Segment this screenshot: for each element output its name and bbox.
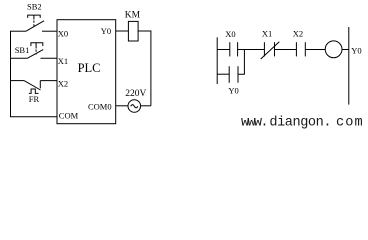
thermal relay FR (NC contact) (24, 81, 41, 94)
wire: X0 to X1 with branch node (238, 49, 265, 51)
wire: X2 to coil Y0 (305, 49, 325, 51)
wire: bus to SB2 left terminal (10, 30, 26, 32)
svg-text:220V: 220V (125, 89, 146, 99)
wire: X1 to X2 (275, 49, 297, 51)
svg-text:Y0: Y0 (101, 26, 111, 36)
contact X2 (NO) (296, 42, 305, 56)
wire: Y0 contact up to main rung (238, 50, 244, 75)
svg-text:SB2: SB2 (27, 2, 42, 12)
wire: FR right terminal to PLC X2 (40, 80, 57, 82)
wire: bus to SB1 left terminal (10, 57, 28, 59)
svg-text:Y0: Y0 (351, 46, 361, 56)
svg-text:FR: FR (29, 94, 40, 104)
svg-text:X2: X2 (293, 28, 303, 38)
wire: left input bus (10, 31, 12, 117)
svg-text:www.diangon.com: www.diangon.com (241, 115, 364, 130)
PLC U1 box (57, 20, 116, 124)
output coil Y0 (325, 41, 342, 58)
wire: SB1 right terminal to PLC X1 (41, 57, 58, 59)
wire: bus to FR left terminal (10, 80, 24, 82)
wire: AC source to right drop (141, 105, 151, 107)
svg-text:X1: X1 (58, 56, 68, 66)
svg-text:SB1: SB1 (15, 45, 30, 55)
wire: PLC Y0 to KM coil (116, 30, 129, 32)
ladder right rail (348, 27, 350, 105)
pushbutton SB2 (NO contact) (26, 15, 44, 31)
wire: rail to contact X0 (217, 49, 229, 51)
contact X0 (NO) (230, 42, 238, 56)
wire: rail to contact Y0 (seal-in branch) (217, 73, 229, 75)
svg-text:X0: X0 (58, 28, 68, 38)
svg-text:COM0: COM0 (88, 102, 112, 112)
wire: bus to PLC COM (10, 116, 57, 118)
svg-text:Y0: Y0 (228, 85, 238, 95)
wire: SB2 right terminal to PLC X0 (42, 30, 57, 32)
svg-text:X0: X0 (225, 29, 235, 39)
AC source 220V (128, 100, 141, 113)
svg-text:PLC: PLC (78, 61, 101, 75)
contact X1 (NC) (261, 42, 280, 59)
contactor coil KM (128, 21, 138, 41)
svg-text:X1: X1 (262, 28, 272, 38)
wire: KM coil to right drop (138, 31, 151, 106)
wire: PLC COM0 to AC source (116, 105, 128, 107)
svg-text:X2: X2 (58, 79, 68, 89)
svg-text:COM: COM (59, 110, 79, 120)
svg-text:KM: KM (125, 11, 141, 21)
contact Y0 (NO seal-in) (229, 66, 238, 83)
wire: coil to right rail (342, 49, 349, 51)
pushbutton SB1 (NO contact) (28, 43, 44, 59)
ladder left rail (216, 37, 218, 84)
